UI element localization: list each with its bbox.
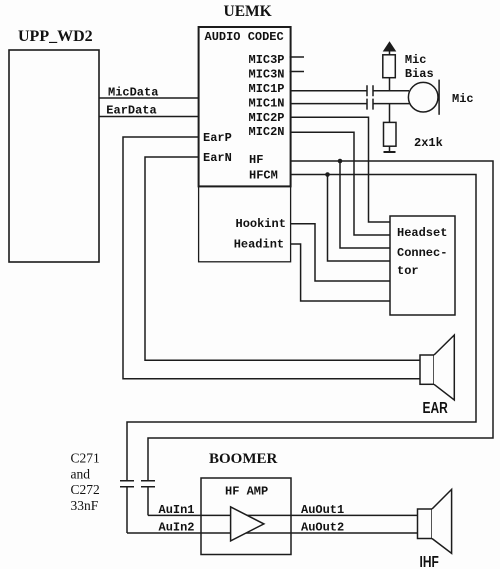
svg-text:C271: C271 — [71, 451, 100, 466]
capacitor on MIC1N line — [367, 99, 373, 110]
wire HF branch to headset connector — [340, 161, 390, 248]
svg-text:tor: tor — [397, 264, 419, 278]
svg-text:UPP_WD2: UPP_WD2 — [18, 28, 93, 45]
wire MIC3N stub — [290, 71, 304, 73]
svg-text:UEMK: UEMK — [224, 3, 272, 20]
speaker EAR — [420, 335, 454, 416]
svg-text:Bias: Bias — [405, 67, 434, 81]
microphone Mic — [408, 80, 473, 115]
svg-text:AuOut1: AuOut1 — [301, 503, 344, 517]
wire MicData — [99, 85, 199, 99]
wire Hookint to headset connector — [291, 224, 390, 281]
wire EarP to EAR speaker — [123, 137, 420, 379]
capacitor on MIC1P line — [367, 85, 373, 96]
label C271 and C272 33nF — [71, 451, 100, 513]
svg-text:MIC2P: MIC2P — [249, 111, 285, 125]
svg-text:Mic: Mic — [452, 92, 474, 106]
svg-text:AuOut2: AuOut2 — [301, 521, 344, 535]
svg-text:EarData: EarData — [106, 104, 156, 118]
block UEMK (audio codec section) — [199, 3, 291, 186]
wire MIC1N — [290, 103, 410, 105]
resistor Mic Bias — [383, 53, 434, 91]
wire MIC2P to headset connector — [290, 117, 390, 222]
wire EarData — [99, 104, 199, 118]
ground — [384, 151, 396, 153]
svg-text:MIC1P: MIC1P — [249, 82, 285, 96]
svg-text:Mic: Mic — [405, 53, 427, 67]
capacitor C272 (left) — [120, 481, 134, 533]
svg-text:MIC2N: MIC2N — [249, 125, 285, 139]
svg-text:MIC3N: MIC3N — [249, 68, 285, 82]
wire AuIn1/AuOut1 — [148, 514, 418, 516]
svg-text:HFCM: HFCM — [249, 168, 278, 182]
svg-text:HF: HF — [249, 153, 263, 167]
junction HF — [338, 159, 343, 164]
svg-text:2x1k: 2x1k — [414, 136, 443, 150]
svg-text:HF AMP: HF AMP — [225, 485, 268, 499]
svg-text:IHF: IHF — [420, 552, 440, 569]
wire HF main run — [148, 161, 493, 481]
svg-text:Hookint: Hookint — [236, 217, 286, 231]
supply arrow for Mic Bias — [384, 43, 395, 55]
svg-text:C272: C272 — [71, 482, 100, 497]
block Headset Connector — [390, 216, 455, 315]
wire Headint to headset connector — [291, 244, 390, 301]
svg-text:EarN: EarN — [203, 151, 232, 165]
wire MIC2N to headset connector — [290, 132, 390, 235]
speaker IHF — [418, 489, 452, 569]
svg-text:MicData: MicData — [108, 85, 158, 99]
block UEMK lower section (interrupt pins) — [199, 186, 291, 261]
block BOOMER — [201, 451, 291, 555]
svg-text:and: and — [71, 466, 91, 481]
wire AuIn2/AuOut2 — [127, 532, 418, 534]
svg-text:AuIn1: AuIn1 — [159, 503, 195, 517]
svg-text:MIC1N: MIC1N — [249, 96, 285, 110]
svg-text:EarP: EarP — [203, 131, 232, 145]
svg-text:Connec-: Connec- — [397, 246, 447, 260]
wire MIC3P stub — [290, 56, 304, 58]
wire HFCM branch to headset connector — [328, 175, 391, 262]
svg-text:Headset: Headset — [397, 226, 447, 240]
wire MIC1P — [290, 90, 409, 92]
svg-text:BOOMER: BOOMER — [209, 451, 278, 467]
svg-text:33nF: 33nF — [71, 498, 99, 513]
svg-text:AUDIO CODEC: AUDIO CODEC — [205, 30, 284, 44]
svg-text:Headint: Headint — [234, 237, 284, 251]
svg-text:EAR: EAR — [423, 398, 448, 416]
wire EarN to EAR speaker — [145, 157, 420, 360]
svg-text:MIC3P: MIC3P — [249, 53, 285, 67]
svg-text:AuIn2: AuIn2 — [159, 521, 195, 535]
wire HFCM main run — [127, 175, 476, 481]
op-amp HF AMP triangle — [231, 507, 264, 541]
capacitor C271 (right) — [141, 481, 155, 516]
block UPP_WD2 — [9, 28, 99, 262]
resistor 2x1k — [384, 104, 443, 152]
junction HFCM — [325, 172, 330, 177]
